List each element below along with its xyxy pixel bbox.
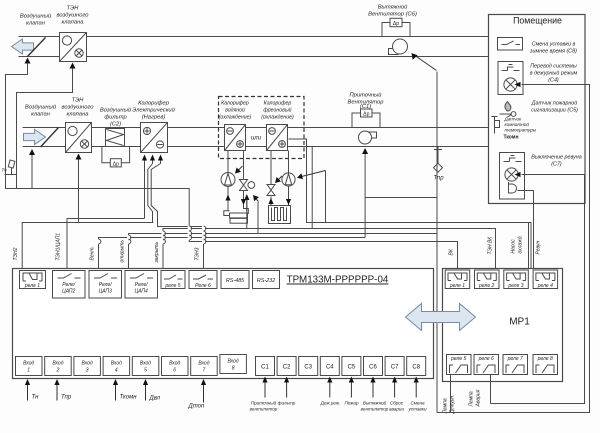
svg-text:Сброс: Сброс xyxy=(390,401,404,406)
svg-text:фильтр: фильтр xyxy=(104,115,127,121)
svg-text:Реле/: Реле/ xyxy=(135,282,148,288)
svg-text:Вход: Вход xyxy=(111,361,122,367)
svg-text:С7: С7 xyxy=(391,365,399,371)
air arrow exhaust xyxy=(12,39,34,54)
svg-text:ТЭН ВК: ТЭН ВК xyxy=(488,236,494,255)
damper exhaust xyxy=(28,38,46,57)
Tn sensor xyxy=(5,160,17,175)
freon expansion valve xyxy=(267,185,275,196)
svg-text:6: 6 xyxy=(173,368,176,374)
rele 1 output xyxy=(20,271,46,289)
svg-text:Двл: Двл xyxy=(149,396,161,402)
3-way valve KZR xyxy=(240,180,248,191)
svg-text:Помещение: Помещение xyxy=(513,16,562,26)
svg-text:С3: С3 xyxy=(304,365,312,371)
svg-text:Смена уставки в: Смена уставки в xyxy=(532,42,576,48)
svg-text:Пожар: Пожар xyxy=(344,401,358,406)
svg-text:Вход: Вход xyxy=(169,361,180,367)
svg-text:комнатной: комнатной xyxy=(505,121,530,127)
svg-text:Δр: Δр xyxy=(393,21,399,27)
svg-text:С2: С2 xyxy=(283,365,291,371)
water pump xyxy=(221,173,235,187)
svg-text:Ткомн: Ткомн xyxy=(120,395,138,401)
svg-text:1: 1 xyxy=(27,368,30,374)
svg-text:(Нагрев): (Нагрев) xyxy=(142,115,166,121)
wire open bus: CAP4 xyxy=(129,234,438,273)
freon cooler xyxy=(267,125,288,151)
wire TEN3 to Rele6 xyxy=(203,227,205,273)
rotated MP1 labels xyxy=(443,235,542,414)
Tpr sensor xyxy=(433,147,442,173)
tank xyxy=(224,206,230,216)
svg-text:ТЭН3: ТЭН3 xyxy=(195,247,201,260)
svg-text:Калорифер: Калорифер xyxy=(138,101,170,107)
svg-text:Приточный: Приточный xyxy=(251,400,277,406)
bus to MP1 rele3 freon xyxy=(289,139,532,273)
flow arrows water xyxy=(225,195,230,201)
rele/CAP3 output xyxy=(89,271,122,299)
svg-text:RS-485: RS-485 xyxy=(226,278,245,284)
svg-text:фреоновый: фреоновый xyxy=(263,107,291,114)
svg-text:уставки: уставки xyxy=(407,407,426,412)
svg-text:зимнее время (С8): зимнее время (С8) xyxy=(529,49,577,55)
svg-text:Реле/: Реле/ xyxy=(99,282,112,288)
svg-text:реле 7: реле 7 xyxy=(507,356,523,362)
svg-text:Ревун: Ревун xyxy=(536,240,542,254)
arrow to water pump xyxy=(237,166,243,172)
svg-text:Воздушный: Воздушный xyxy=(20,13,52,20)
svg-text:Выключение ревуна: Выключение ревуна xyxy=(531,155,582,161)
svg-text:Электрический: Электрический xyxy=(132,107,176,114)
input arrows xyxy=(28,381,417,403)
svg-text:5: 5 xyxy=(144,368,147,374)
svg-text:ЦАП3: ЦАП3 xyxy=(99,289,112,295)
svg-text:(охлаждение): (охлаждение) xyxy=(261,115,294,121)
svg-text:Вход: Вход xyxy=(23,361,34,367)
RS-485 port xyxy=(221,271,249,289)
wire dampers VK bus xyxy=(6,63,458,273)
dashed coolers box xyxy=(219,97,305,159)
svg-text:С8: С8 xyxy=(412,365,420,371)
svg-text:фильтр: фильтр xyxy=(278,401,296,406)
svg-text:Вентилятор (С6): Вентилятор (С6) xyxy=(368,12,417,18)
svg-text:Авария: Авария xyxy=(476,389,482,407)
wire close bus: rele5 xyxy=(163,229,496,273)
svg-text:ТЭН: ТЭН xyxy=(72,98,84,104)
rele 5 output xyxy=(161,271,185,289)
water cooler pipes xyxy=(221,151,255,224)
svg-text:воздушного: воздушного xyxy=(62,105,95,111)
svg-text:реле 5: реле 5 xyxy=(450,356,466,362)
svg-text:Приточный: Приточный xyxy=(349,92,382,99)
condenser xyxy=(269,206,291,224)
arrow to KZR actuator xyxy=(255,197,259,202)
exhaust duct xyxy=(19,37,489,57)
svg-text:МР1: МР1 xyxy=(509,317,530,328)
arrow to compressor xyxy=(300,171,326,178)
supply duct xyxy=(23,128,489,147)
svg-text:Тпр: Тпр xyxy=(61,395,72,401)
analog inputs xyxy=(16,355,247,376)
damper supply xyxy=(41,128,59,148)
horn to MP1 rele4 xyxy=(518,191,534,269)
svg-text:Тн: Тн xyxy=(2,168,8,173)
svg-text:реле 4: реле 4 xyxy=(537,283,553,289)
big data exchange arrow xyxy=(406,304,476,331)
water cooler xyxy=(225,125,246,151)
svg-text:или: или xyxy=(251,136,262,142)
svg-text:реле 1: реле 1 xyxy=(24,283,40,289)
svg-text:Воздушный: Воздушный xyxy=(100,107,132,114)
svg-text:воздушного: воздушного xyxy=(57,13,90,19)
svg-text:вентилятор: вентилятор xyxy=(361,407,389,412)
svg-text:Деж.реж.: Деж.реж. xyxy=(320,401,341,406)
svg-text:реле 5: реле 5 xyxy=(164,283,180,289)
right side wires xyxy=(437,85,590,413)
wire hop marks xyxy=(97,226,206,244)
svg-text:открыть: открыть xyxy=(120,240,126,263)
svg-text:реле 1: реле 1 xyxy=(449,283,465,289)
svg-text:Смена: Смена xyxy=(410,401,425,406)
svg-text:Насос: Насос xyxy=(511,239,517,254)
MP1 top relays 1-4 xyxy=(445,270,557,289)
svg-text:4: 4 xyxy=(115,368,118,374)
svg-text:аварии: аварии xyxy=(389,407,405,412)
svg-text:ТЭН1/ЦАП1: ТЭН1/ЦАП1 xyxy=(56,233,62,261)
arrow into TEN2 xyxy=(70,63,76,69)
horn off button C7 xyxy=(500,153,525,200)
svg-text:водяной: водяной xyxy=(225,107,245,114)
svg-text:Вход: Вход xyxy=(228,359,239,365)
svg-text:Вход: Вход xyxy=(52,361,63,367)
svg-text:охлажд.: охлажд. xyxy=(518,235,524,253)
input labels xyxy=(32,395,205,410)
svg-text:Датчик: Датчик xyxy=(504,117,523,122)
lamp dezhurn wire rele5 xyxy=(437,85,590,413)
svg-text:8: 8 xyxy=(232,366,235,372)
svg-text:3: 3 xyxy=(86,368,89,374)
svg-text:Тн: Тн xyxy=(32,395,40,401)
svg-text:Дтоп: Дтоп xyxy=(188,404,205,410)
flow arrows freon xyxy=(268,198,273,204)
freon pipes xyxy=(267,151,295,224)
svg-text:Вход: Вход xyxy=(198,361,209,367)
wire TEN2 to rele1 xyxy=(17,69,154,280)
standby mode button+lamp C4 xyxy=(498,62,523,95)
svg-text:клапана: клапана xyxy=(67,112,90,118)
svg-text:Калорифер: Калорифер xyxy=(221,101,249,107)
svg-text:ЦАП2: ЦАП2 xyxy=(62,289,75,295)
svg-text:закрыть: закрыть xyxy=(154,241,160,263)
rele/CAP4 output xyxy=(125,271,158,299)
svg-text:С4: С4 xyxy=(326,365,334,371)
TEN exhaust valve heater U-ten2 xyxy=(60,33,87,62)
svg-text:(С7): (С7) xyxy=(551,162,562,168)
svg-text:Вход: Вход xyxy=(82,361,93,367)
wire Vent bus: CAP3 to fans xyxy=(99,238,366,273)
svg-text:клапан: клапан xyxy=(26,21,46,27)
svg-text:Перевод системы: Перевод системы xyxy=(530,64,577,70)
svg-text:Вент.: Вент. xyxy=(90,246,96,260)
arrows into electric heater xyxy=(142,155,147,161)
arrow to expansion valve xyxy=(277,176,283,182)
rotated output labels xyxy=(13,233,201,264)
svg-text:Ткомн: Ткомн xyxy=(504,135,519,141)
lamp avariya wire rele6 xyxy=(491,175,585,404)
KZR control stubs xyxy=(246,200,248,229)
electric heater stage wires xyxy=(144,161,146,219)
svg-text:Вход: Вход xyxy=(140,361,151,367)
svg-text:Δр: Δр xyxy=(363,112,369,118)
svg-text:RS-232: RS-232 xyxy=(257,278,275,284)
svg-text:в дежурный режим: в дежурный режим xyxy=(530,70,578,77)
fire alarm sensor C5 xyxy=(500,102,516,117)
arrow to exhaust fan xyxy=(414,55,437,71)
compressor arrow stub xyxy=(325,171,327,223)
winter setpoint switch C8 xyxy=(498,38,523,51)
svg-text:ЦАП4: ЦАП4 xyxy=(135,289,148,295)
dp sensor exhaust fan xyxy=(382,23,410,37)
wire TEN1/CAP1 to releCAP2 xyxy=(67,160,145,279)
fan symbol exhaust xyxy=(393,39,408,54)
svg-text:Тпр: Тпр xyxy=(433,176,444,182)
svg-text:Датчик пожарной: Датчик пожарной xyxy=(531,100,578,107)
room temperature sensor xyxy=(492,117,500,134)
svg-text:реле 2: реле 2 xyxy=(478,283,494,289)
freon pump/compressor xyxy=(282,173,295,186)
svg-text:С6: С6 xyxy=(369,365,377,371)
svg-text:ТЭН2: ТЭН2 xyxy=(13,247,19,260)
supply air arrow xyxy=(24,130,46,145)
svg-text:ТРМ133М-РРРРРР-04: ТРМ133М-РРРРРР-04 xyxy=(287,275,389,286)
svg-text:Реле 6: Реле 6 xyxy=(195,283,211,289)
MP1 bottom relays 5-8 xyxy=(447,355,558,375)
svg-text:реле 3: реле 3 xyxy=(507,283,523,289)
svg-text:клапан: клапан xyxy=(31,112,51,118)
svg-text:Вытяжной: Вытяжной xyxy=(363,400,387,406)
discrete inputs C1-C8 xyxy=(256,357,426,376)
svg-text:Лампа: Лампа xyxy=(469,391,475,407)
rele/CAP2 output xyxy=(53,271,86,299)
svg-text:сигнализации (С5): сигнализации (С5) xyxy=(531,108,578,114)
svg-text:С1: С1 xyxy=(261,365,269,371)
svg-text:2: 2 xyxy=(56,368,60,374)
svg-text:клапана: клапана xyxy=(62,20,85,26)
svg-text:Вытяжной: Вытяжной xyxy=(378,4,408,11)
svg-text:Воздушный: Воздушный xyxy=(25,104,57,111)
air filter C2 xyxy=(102,129,130,167)
svg-text:(охлаждение): (охлаждение) xyxy=(219,115,252,121)
svg-text:(С4): (С4) xyxy=(548,78,559,84)
electric heater xyxy=(141,123,168,153)
svg-text:реле 6: реле 6 xyxy=(478,356,494,362)
TEN supply valve heater xyxy=(66,123,92,153)
svg-text:температуры: температуры xyxy=(505,128,537,133)
svg-text:Калорифер: Калорифер xyxy=(264,101,292,107)
svg-text:Реле/: Реле/ xyxy=(62,282,75,288)
svg-text:7: 7 xyxy=(203,368,206,374)
arrow to KZR bottom xyxy=(246,198,248,211)
svg-text:Δр: Δр xyxy=(113,161,119,167)
svg-text:С5: С5 xyxy=(348,365,356,371)
svg-text:ВК: ВК xyxy=(449,248,455,255)
RS-232 port xyxy=(253,271,280,289)
svg-text:ТЭН: ТЭН xyxy=(67,6,79,12)
svg-text:реле 8: реле 8 xyxy=(537,356,553,362)
svg-text:вентилятор: вентилятор xyxy=(250,407,278,412)
svg-text:(С2): (С2) xyxy=(110,122,121,128)
Rele 6 output xyxy=(189,271,217,289)
